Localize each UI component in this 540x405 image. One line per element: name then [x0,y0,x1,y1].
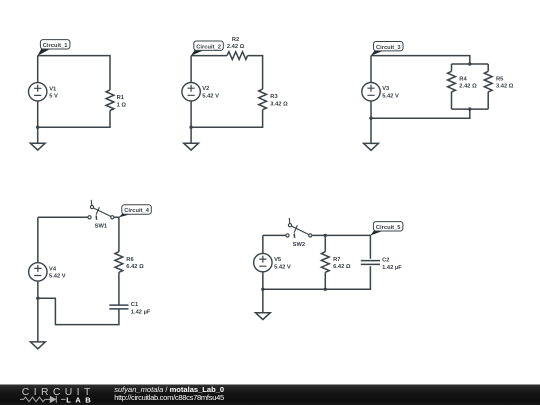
svg-text:R1: R1 [117,95,125,101]
svg-text:V3: V3 [382,86,389,92]
svg-text:LAB: LAB [66,396,91,405]
svg-text:R7: R7 [333,257,340,263]
svg-text:5.42 V: 5.42 V [49,274,66,280]
svg-text:3.42 Ω: 3.42 Ω [496,84,514,90]
svg-text:R5: R5 [496,76,504,82]
svg-text:Circuit_4: Circuit_4 [124,208,149,214]
svg-text:Circuit_3: Circuit_3 [376,45,401,51]
svg-text:R4: R4 [459,76,467,82]
svg-text:V1: V1 [49,86,57,92]
svg-text:http://circuitlab.com/c88cs78m: http://circuitlab.com/c88cs78mfsu45 [114,393,224,402]
svg-text:5.42 V: 5.42 V [202,94,219,100]
svg-text:Circuit_1: Circuit_1 [43,43,68,49]
svg-text:Circuit_2: Circuit_2 [196,44,221,50]
svg-text:5 V: 5 V [49,94,58,100]
svg-text:SW2: SW2 [293,242,305,248]
svg-text:R3: R3 [270,94,277,100]
svg-text:5.42 V: 5.42 V [382,94,399,100]
svg-text:3.42 Ω: 3.42 Ω [270,101,288,107]
svg-text:R6: R6 [126,257,133,263]
svg-text:1.42 µF: 1.42 µF [382,265,402,271]
svg-text:V4: V4 [49,266,57,272]
svg-text:Circuit_5: Circuit_5 [376,225,401,231]
svg-text:V5: V5 [274,257,282,263]
svg-text:C2: C2 [382,258,389,264]
svg-text:2.42 Ω: 2.42 Ω [227,44,245,50]
svg-text:5.42 V: 5.42 V [274,264,291,270]
svg-text:2.42 Ω: 2.42 Ω [459,84,477,90]
svg-text:V2: V2 [202,86,209,92]
svg-text:1 Ω: 1 Ω [117,102,127,108]
svg-text:R2: R2 [232,37,239,43]
svg-text:SW1: SW1 [95,224,108,230]
svg-text:1.42 µF: 1.42 µF [131,310,151,316]
svg-text:C1: C1 [131,302,139,308]
svg-text:6.42 Ω: 6.42 Ω [333,264,351,270]
svg-text:6.42 Ω: 6.42 Ω [126,264,144,270]
